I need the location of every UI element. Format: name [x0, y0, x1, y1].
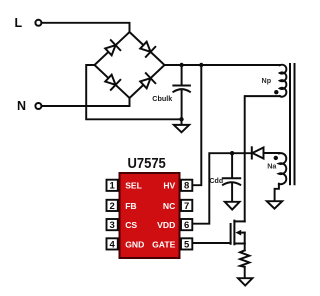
pin 2 box: [107, 200, 118, 211]
terminal N: [35, 103, 41, 109]
svg-text:5: 5: [184, 239, 190, 250]
pin 1 box: [107, 180, 118, 191]
wire GATE: pin 5 to gate: [193, 242, 231, 244]
ground under resistor: [238, 278, 252, 285]
ground under Cbulk: [174, 119, 189, 132]
capacitor Cbulk: [173, 65, 190, 119]
svg-text:7: 7: [184, 201, 189, 212]
svg-text:6: 6: [184, 220, 189, 231]
capacitor Cdd: [223, 153, 240, 202]
diode D1 bridge top-left: [104, 40, 121, 57]
diode D3 bridge bottom-left: [104, 73, 121, 90]
wire source to resistor: [244, 244, 246, 251]
pin 3 box: [107, 219, 118, 230]
node junction Cdd: [230, 151, 234, 155]
transformer auxiliary winding Na: [279, 153, 286, 184]
svg-text:SEL: SEL: [125, 181, 142, 191]
resistor Rs: [240, 250, 249, 267]
wire Na bottom to ground: [275, 184, 279, 201]
svg-text:Na: Na: [267, 162, 277, 171]
transistor Q1 MOSFET: [231, 221, 245, 245]
ground under Na: [267, 201, 282, 208]
diode D4 bridge bottom-right: [139, 73, 156, 90]
wire resistor to ground: [244, 267, 246, 278]
transformer primary winding Np: [280, 65, 287, 97]
svg-text:Np: Np: [262, 76, 272, 85]
polarity dot Na: [274, 156, 278, 160]
wire bridge negative to ground rail: [86, 65, 181, 119]
svg-text:1: 1: [109, 181, 115, 192]
node junction Cbulk top: [179, 63, 183, 67]
pin 7 box: [181, 200, 192, 211]
pin 8 box: [181, 180, 192, 191]
op-amp/controller U7575 body: [120, 173, 180, 258]
svg-text:GND: GND: [125, 239, 144, 249]
diode Daux (VDD rectifier): [252, 147, 279, 158]
diode D2 bridge top-right: [139, 40, 156, 57]
wire Np bottom to MOSFET drain: [245, 96, 280, 221]
svg-text:U7575: U7575: [128, 154, 167, 171]
svg-text:CS: CS: [125, 220, 137, 230]
svg-text:4: 4: [109, 239, 115, 250]
node junction Cbulk bottom / ground: [179, 117, 183, 121]
svg-text:FB: FB: [125, 201, 136, 211]
wire VDD: pin 6 up to aux diode node: [193, 153, 252, 224]
svg-text:N: N: [17, 99, 26, 113]
polarity dot Np: [274, 90, 278, 94]
pin 6 box: [181, 219, 192, 230]
svg-text:HV: HV: [163, 181, 175, 191]
ground under Cdd: [225, 202, 240, 210]
pin 5 box: [181, 238, 192, 249]
wire N to bridge bottom: [42, 98, 130, 106]
node junction HV branch: [199, 63, 203, 67]
svg-text:VDD: VDD: [157, 220, 175, 230]
svg-text:Cdd: Cdd: [210, 178, 224, 185]
wire DC+ rail: [165, 64, 280, 66]
svg-text:2: 2: [109, 201, 114, 212]
wire HV: rail down to pin 8: [193, 65, 202, 185]
svg-text:3: 3: [109, 220, 114, 231]
svg-text:NC: NC: [163, 201, 175, 211]
bridge rectifier diamond wires: [95, 32, 165, 98]
svg-text:GATE: GATE: [152, 239, 176, 249]
wire L to bridge top: [42, 23, 130, 32]
svg-text:L: L: [15, 16, 23, 30]
transformer core: [290, 64, 295, 184]
pin 4 box: [107, 238, 118, 249]
terminal L: [35, 20, 41, 26]
svg-text:Cbulk: Cbulk: [152, 94, 172, 103]
svg-text:8: 8: [184, 181, 189, 192]
